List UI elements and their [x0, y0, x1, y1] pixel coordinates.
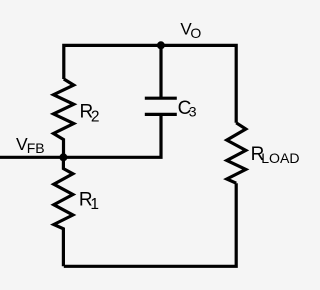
svg-text:LOAD: LOAD [261, 150, 299, 166]
svg-text:FB: FB [27, 140, 45, 156]
svg-text:2: 2 [91, 108, 100, 125]
svg-text:O: O [190, 25, 201, 41]
svg-text:3: 3 [189, 103, 197, 119]
svg-text:1: 1 [90, 196, 99, 213]
